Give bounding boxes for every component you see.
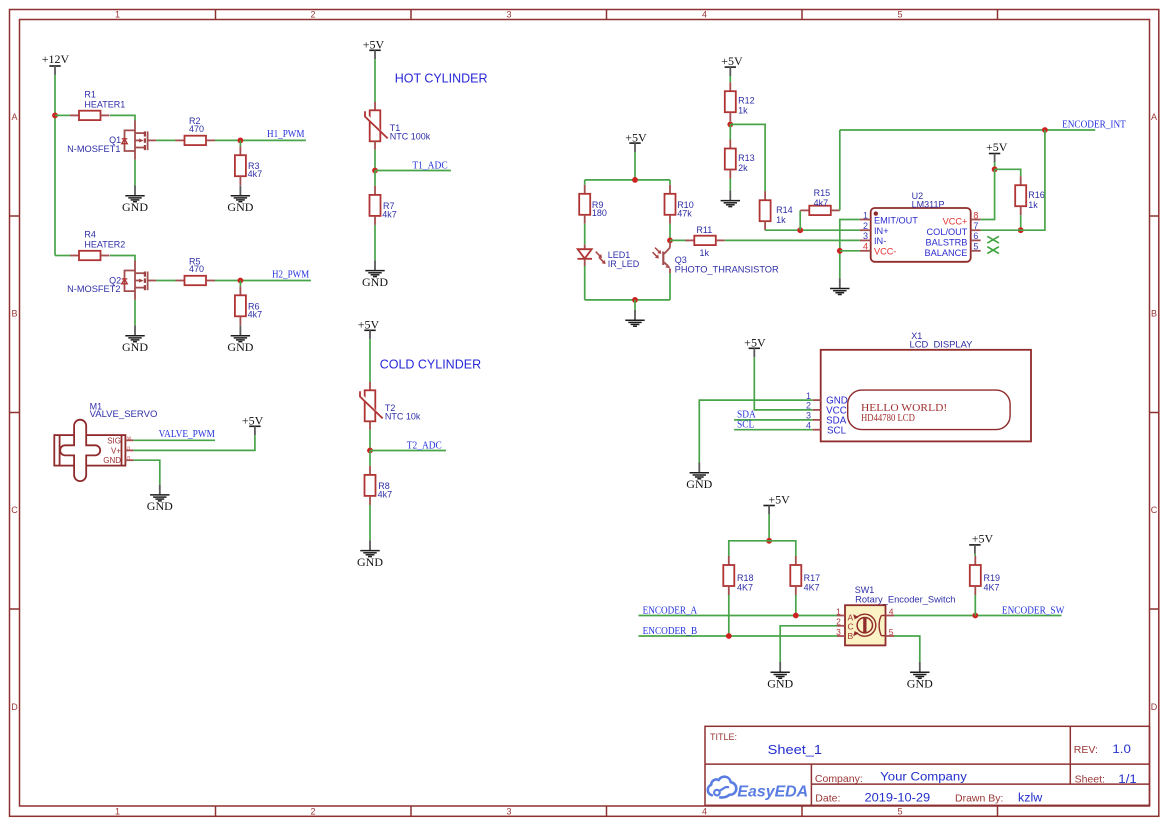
svg-text:1k: 1k [1028, 200, 1038, 210]
wire bottom rail [585, 299, 670, 301]
svg-text:PHOTO_THRANSISTOR: PHOTO_THRANSISTOR [675, 265, 780, 275]
svg-text:+5V: +5V [721, 54, 743, 68]
wire pin1 to gnd rail [840, 220, 860, 279]
wire R15 left to node [799, 210, 801, 230]
no-connect pin6 [987, 236, 999, 243]
SW1 pin numbers [836, 606, 894, 637]
node LED1/Q3 gnd rail [632, 297, 638, 303]
svg-text:ENCODER_INT: ENCODER_INT [1062, 120, 1126, 131]
svg-text:1/1: 1/1 [1118, 774, 1137, 786]
resistor R2 [176, 136, 216, 145]
wire +5V to T1 [374, 59, 376, 102]
resistor R1 [70, 111, 110, 120]
svg-text:3: 3 [506, 807, 511, 817]
wire SCL [734, 429, 813, 431]
svg-text:4K7: 4K7 [737, 583, 753, 593]
ground under encoder common [767, 662, 793, 691]
wire node to R13 [729, 124, 731, 139]
svg-text:1: 1 [115, 10, 120, 20]
power +5V R12 [725, 67, 736, 76]
wire R14 to IN+ pin2 [765, 229, 860, 231]
node pin4 gnd [837, 248, 843, 254]
resistor R18 [723, 556, 734, 595]
svg-text:5: 5 [973, 242, 978, 252]
svg-text:VCC-: VCC- [874, 247, 896, 257]
wire X1 gnd [699, 400, 812, 462]
wire node to R6 [239, 281, 241, 287]
svg-text:Sheet_1: Sheet_1 [768, 742, 822, 757]
svg-text:+12V: +12V [42, 52, 70, 66]
svg-text:+5V: +5V [744, 335, 766, 349]
wire +5V to R19 [974, 554, 976, 556]
wire R16 to pin7 node [1020, 215, 1022, 230]
title block outline [705, 726, 1150, 805]
frame row ticks left [10, 215, 20, 217]
svg-text:4k7: 4k7 [814, 198, 829, 208]
wire R7 to ground [374, 225, 376, 260]
wire R19 down [974, 595, 976, 616]
wire to R9 [584, 180, 586, 185]
svg-text:8: 8 [973, 210, 978, 220]
thermistor T2 [360, 382, 383, 430]
svg-text:N-MOSFET2: N-MOSFET2 [67, 284, 120, 294]
svg-text:ENCODER_SW: ENCODER_SW [1002, 605, 1065, 616]
svg-text:4: 4 [702, 10, 707, 20]
svg-text:1.0: 1.0 [1112, 744, 1131, 756]
wire X1 vcc [754, 357, 812, 410]
svg-text:n: n [127, 455, 130, 461]
wire ENCODER_SW [894, 615, 1062, 617]
svg-text:C: C [848, 622, 854, 632]
svg-text:V+: V+ [111, 446, 121, 455]
diode LED1 [577, 245, 592, 266]
svg-text:SIG: SIG [107, 436, 121, 445]
wire SIG / VALVE_PWM [134, 439, 215, 441]
svg-text:4: 4 [702, 807, 707, 817]
svg-text:Drawn By:: Drawn By: [955, 793, 1003, 805]
wire LED1 to bottom rail [584, 266, 586, 300]
wire node to R11 [670, 239, 689, 241]
resistor R17 [790, 556, 801, 595]
svg-text:IR_LED: IR_LED [608, 259, 640, 269]
svg-text:HD44780 LCD: HD44780 LCD [861, 413, 915, 424]
svg-text:R1: R1 [84, 90, 96, 100]
ground under Q2 [122, 325, 148, 354]
wire top rail [585, 179, 670, 181]
wire pin7 to ENCODER_INT [981, 130, 1045, 230]
wire ENCODER_INT down to R15 [839, 130, 841, 210]
svg-text:H2_PWM: H2_PWM [272, 269, 309, 280]
power +5V led [629, 143, 640, 152]
svg-text:+5V: +5V [625, 130, 647, 144]
svg-text:R16: R16 [1028, 190, 1045, 200]
wire R9 to LED1 [584, 224, 586, 245]
resistor R11 [685, 236, 725, 245]
node R5/R6 [238, 278, 244, 284]
wire R2 to H1_PWM [215, 139, 306, 141]
resistor R7 [370, 186, 381, 225]
node R18/B [726, 633, 732, 639]
wire R18 to ENCODER_B [728, 595, 730, 636]
svg-text:470: 470 [189, 264, 204, 274]
EasyEDA logo [708, 777, 737, 798]
svg-text:+5V: +5V [972, 532, 994, 546]
svg-text:3: 3 [506, 10, 511, 20]
svg-text:5: 5 [897, 10, 902, 20]
power +5V R19 [969, 545, 980, 554]
power +5V hot [369, 50, 380, 59]
op-amp U2 LM311P [871, 208, 971, 262]
node +5V/R16 [992, 166, 998, 172]
node T1_ADC [372, 168, 378, 174]
wire ENCODER_INT rail [840, 129, 1095, 131]
svg-text:D: D [1151, 702, 1158, 712]
svg-text:7: 7 [973, 221, 978, 231]
svg-text:NTC 10k: NTC 10k [385, 412, 421, 422]
svg-text:T2_ADC: T2_ADC [407, 440, 442, 451]
wire T1_ADC stub [375, 170, 451, 172]
resistor R16 [1015, 176, 1026, 215]
svg-text:4K7: 4K7 [984, 583, 1000, 593]
resistor R19 [970, 556, 981, 595]
resistor R10 [665, 185, 676, 224]
svg-text:B: B [1151, 309, 1157, 319]
servo M1 pin stubs [125, 440, 133, 460]
wire node to pin8 [981, 169, 995, 219]
wire to R10 [669, 180, 671, 185]
X1 LCD screen [848, 390, 1010, 430]
svg-text:COLD CYLINDER: COLD CYLINDER [380, 357, 481, 371]
svg-text:NTC 100k: NTC 100k [390, 132, 431, 142]
svg-text:REV:: REV: [1074, 744, 1098, 756]
wire node to R16 [995, 169, 1021, 176]
svg-text:COL/OUT: COL/OUT [927, 227, 968, 237]
svg-text:TITLE:: TITLE: [710, 732, 737, 742]
svg-text:kzlw: kzlw [1018, 792, 1043, 804]
svg-text:2: 2 [310, 807, 315, 817]
node +5V/R9/R10 [632, 177, 638, 183]
wire node to R14 [730, 124, 765, 191]
wire +5V to rail [768, 514, 770, 540]
svg-text:ENCODER_B: ENCODER_B [643, 626, 698, 637]
wire Q2 source to ground [134, 300, 136, 326]
svg-text:VCC+: VCC+ [943, 217, 968, 227]
svg-text:5: 5 [889, 627, 894, 637]
svg-text:4k7: 4k7 [248, 169, 263, 179]
svg-text:R12: R12 [738, 96, 755, 106]
ground under R7 [362, 260, 388, 289]
power +5V pullups [763, 506, 774, 515]
svg-text:IN-: IN- [874, 236, 886, 246]
svg-text:SCL: SCL [827, 426, 847, 437]
svg-text:HOT CYLINDER: HOT CYLINDER [395, 72, 488, 86]
wire node to pin4 [840, 250, 860, 252]
connector X1 box [821, 350, 1031, 442]
svg-text:4k7: 4k7 [378, 490, 393, 500]
svg-text:VALVE_PWM: VALVE_PWM [159, 429, 215, 440]
svg-text:2: 2 [310, 10, 315, 20]
svg-text:2k: 2k [738, 163, 748, 173]
wire R17 to ENCODER_A [795, 595, 797, 616]
svg-text:47k: 47k [677, 209, 692, 219]
ground under R13 [721, 190, 740, 206]
svg-text:LM311P: LM311P [912, 200, 945, 210]
svg-text:1: 1 [836, 606, 841, 616]
resistor R14 [760, 191, 771, 230]
svg-text:BALANCE: BALANCE [924, 248, 967, 258]
svg-text:A: A [11, 112, 17, 122]
svg-text:R14: R14 [776, 205, 793, 215]
resistor R4 [70, 251, 110, 260]
svg-text:4: 4 [889, 606, 894, 616]
wire R5 to H2_PWM [215, 280, 311, 282]
ground under led rail [625, 310, 644, 326]
wire node to R7 [374, 171, 376, 186]
svg-text:1: 1 [115, 807, 120, 817]
wire T2 to node [369, 430, 371, 451]
svg-text:2: 2 [836, 617, 841, 627]
resistor R6 [235, 286, 246, 325]
svg-text:+5V: +5V [363, 38, 385, 52]
resistor R13 [725, 140, 736, 179]
node R17/A [793, 613, 799, 619]
svg-text:+5V: +5V [242, 413, 264, 427]
node R14/R15 [797, 227, 803, 233]
power +5V servo [249, 426, 260, 435]
wire R10 to node [669, 224, 671, 241]
X1 pin stubs [813, 400, 821, 430]
frame column ticks bottom [215, 806, 217, 816]
wire GND pin to ground [134, 460, 160, 484]
wire ENCODER_A [639, 615, 838, 617]
ground under R3 [227, 185, 253, 214]
svg-text:D: D [11, 702, 18, 712]
svg-text:VALVE_SERVO: VALVE_SERVO [90, 409, 158, 419]
node Q3 collector [667, 238, 673, 244]
wire +5V to node [994, 162, 996, 169]
svg-text:Date:: Date: [815, 792, 840, 804]
wire pullup rail [729, 541, 796, 557]
ground under M1 [147, 485, 173, 514]
svg-text:w: w [126, 435, 131, 441]
svg-text:R17: R17 [804, 573, 821, 583]
svg-text:R13: R13 [738, 153, 755, 163]
node R12/R13/R14 [727, 122, 733, 128]
svg-text:3: 3 [863, 231, 868, 241]
svg-text:C: C [1151, 505, 1158, 515]
ground under SW1 [907, 662, 933, 691]
wire T2_ADC stub [370, 450, 446, 452]
svg-text:R19: R19 [984, 573, 1001, 583]
LED1 emission arrows [596, 252, 602, 258]
svg-text:GND: GND [103, 456, 121, 465]
frame row ticks right [1150, 215, 1159, 217]
wire R11 to IN- pin3 [725, 239, 860, 241]
ground under R8 [357, 540, 383, 569]
svg-text:R15: R15 [814, 188, 831, 198]
svg-text:4k7: 4k7 [248, 309, 263, 319]
wire +5V down [634, 152, 636, 180]
no-connect pin5 [987, 247, 999, 254]
svg-text:1k: 1k [776, 215, 786, 225]
wire +5V to T2 [369, 339, 371, 382]
svg-text:EMIT/OUT: EMIT/OUT [874, 216, 918, 226]
svg-text:HEATER2: HEATER2 [84, 239, 125, 249]
svg-text:470: 470 [189, 124, 204, 134]
wire SDA [734, 419, 813, 421]
ground under X1 [686, 463, 712, 492]
wire V+ to +5V [134, 435, 255, 450]
svg-text:+5V: +5V [986, 140, 1008, 154]
thermistor T1 [365, 102, 388, 150]
svg-text:1k: 1k [738, 105, 748, 115]
wire T1 to node [374, 150, 376, 171]
svg-text:1: 1 [863, 210, 868, 220]
node R2/R3 [238, 138, 244, 144]
wire R12 to node [729, 121, 731, 124]
svg-text:SCL: SCL [737, 420, 754, 431]
node R19/SW [972, 613, 978, 619]
svg-text:HEATER1: HEATER1 [84, 99, 125, 109]
wire R1 to Q1 drain [110, 115, 135, 120]
transistor Q3 phototransistor [663, 240, 670, 273]
SW1 pin stubs [837, 616, 894, 637]
svg-text:B: B [848, 631, 854, 641]
wire to R1 [55, 114, 70, 116]
wire R4 to Q2 drain [110, 256, 135, 261]
svg-text:3: 3 [836, 627, 841, 637]
wire pin2 to ground [780, 626, 837, 662]
power +5V U2 [989, 154, 1000, 163]
svg-text:5: 5 [897, 807, 902, 817]
node T2_ADC [367, 448, 373, 454]
svg-text:4: 4 [863, 242, 868, 252]
node +12V/R1 [52, 113, 58, 119]
svg-text:R4: R4 [84, 230, 96, 240]
node R16/pin7 [1018, 227, 1024, 233]
wire +5V to R12 [729, 76, 731, 82]
svg-text:1k: 1k [700, 248, 710, 258]
svg-text:n: n [127, 445, 130, 451]
svg-text:T1_ADC: T1_ADC [412, 160, 448, 171]
wire R8 to ground [369, 505, 371, 540]
power +5V cold [364, 330, 375, 339]
servo M1 body [54, 420, 125, 481]
svg-text:R11: R11 [696, 225, 712, 235]
SW1 rotary glyph [853, 614, 885, 636]
svg-text:C: C [11, 505, 18, 515]
wire rail corner to R4 [55, 255, 70, 257]
resistor R5 [176, 276, 216, 285]
wire pin5 to ground [894, 636, 920, 662]
wire node to R3 [239, 140, 241, 146]
ground under R6 [227, 325, 253, 354]
power +12V [49, 66, 60, 75]
wire Q1 source to ground [134, 160, 136, 186]
node ENCODER_INT branch [1042, 127, 1048, 133]
svg-text:+5V: +5V [768, 492, 790, 506]
wire to ground [634, 300, 636, 310]
resistor R8 [365, 466, 376, 505]
resistor R12 [725, 82, 736, 121]
svg-text:N-MOSFET1: N-MOSFET1 [67, 144, 120, 154]
svg-text:ENCODER_A: ENCODER_A [643, 605, 698, 616]
ground under Q1 [122, 185, 148, 214]
wire Q3 emitter to rail [669, 273, 671, 300]
svg-text:180: 180 [592, 208, 607, 218]
svg-text:EasyEDA: EasyEDA [737, 784, 808, 801]
svg-text:Sheet:: Sheet: [1075, 773, 1105, 785]
svg-text:4k7: 4k7 [382, 210, 397, 220]
svg-text:LCD_DISPLAY: LCD_DISPLAY [910, 340, 973, 350]
node pullup rail [766, 538, 772, 544]
svg-text:2: 2 [863, 221, 868, 231]
ground under U2 [830, 278, 849, 294]
svg-text:R18: R18 [737, 573, 754, 583]
svg-text:4K7: 4K7 [804, 583, 820, 593]
svg-text:IN+: IN+ [874, 226, 889, 236]
svg-text:6: 6 [973, 231, 978, 241]
resistor R3 [235, 146, 246, 185]
servo M1 horn cross [60, 420, 100, 481]
svg-text:2019-10-29: 2019-10-29 [865, 792, 931, 804]
svg-text:+5V: +5V [358, 318, 380, 332]
power +5V X1 [749, 348, 760, 357]
svg-text:BALSTRB: BALSTRB [926, 237, 968, 247]
svg-text:B: B [11, 309, 17, 319]
svg-text:Rotary_Encoder_Switch: Rotary_Encoder_Switch [855, 594, 955, 604]
transistor Q1 [122, 120, 157, 159]
resistor R15 [800, 206, 840, 215]
transistor Q2 [122, 261, 157, 300]
svg-text:A: A [1151, 112, 1157, 122]
wire ENCODER_B [639, 635, 838, 637]
U2 pin stubs [860, 220, 981, 251]
resistor R9 [579, 185, 590, 224]
wire Q1 gate to R2 [156, 139, 175, 141]
wire +12V rail [54, 75, 56, 256]
svg-text:Your Company: Your Company [880, 772, 967, 784]
wire R13 to ground [729, 179, 731, 191]
svg-text:Company:: Company: [815, 773, 863, 785]
wire node to R8 [369, 451, 371, 466]
svg-text:H1_PWM: H1_PWM [267, 129, 305, 140]
wire Q2 gate to R5 [156, 280, 175, 282]
